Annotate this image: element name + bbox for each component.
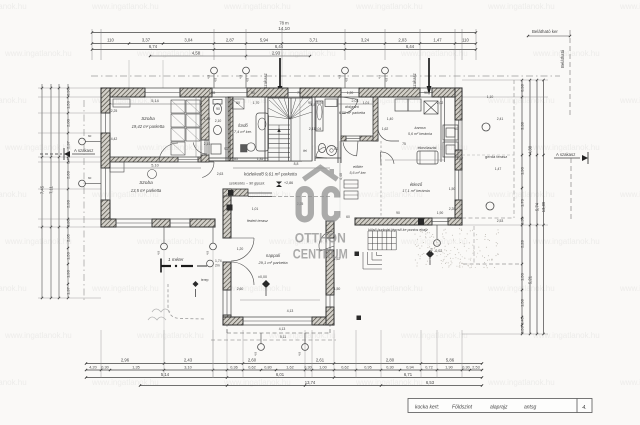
svg-text:www.ingatlanok.hu: www.ingatlanok.hu xyxy=(0,190,27,199)
svg-text:2,00: 2,00 xyxy=(66,118,71,127)
svg-text:90: 90 xyxy=(251,91,255,95)
svg-text:A szakasz: A szakasz xyxy=(556,152,575,157)
svg-text:3,04: 3,04 xyxy=(184,38,193,43)
svg-text:78 m: 78 m xyxy=(279,21,289,26)
svg-text:4,8: 4,8 xyxy=(207,74,211,79)
svg-text:www.ingatlanok.hu: www.ingatlanok.hu xyxy=(0,284,27,293)
svg-text:2,03: 2,03 xyxy=(398,38,407,43)
svg-text:13,5 m² parketta: 13,5 m² parketta xyxy=(131,188,162,193)
svg-text:www.ingatlanok.hu: www.ingatlanok.hu xyxy=(0,378,27,387)
svg-text:4,38: 4,38 xyxy=(528,145,533,154)
svg-text:www.ingatlanok.hu: www.ingatlanok.hu xyxy=(487,190,555,199)
svg-text:4,8: 4,8 xyxy=(298,351,302,356)
svg-text:www.ingatlanok.hu: www.ingatlanok.hu xyxy=(136,237,204,246)
svg-text:1,35: 1,35 xyxy=(257,157,264,161)
svg-text:alaprajz: alaprajz xyxy=(490,405,508,411)
svg-text:1,90: 1,90 xyxy=(437,211,444,215)
svg-text:www.ingatlanok.hu: www.ingatlanok.hu xyxy=(532,143,600,152)
svg-text:dolgozó: dolgozó xyxy=(345,104,360,109)
svg-text:1,40: 1,40 xyxy=(387,117,394,121)
svg-text:2,28: 2,28 xyxy=(449,207,456,211)
svg-text:1,53: 1,53 xyxy=(66,251,71,260)
svg-text:www.ingatlanok.hu: www.ingatlanok.hu xyxy=(0,96,27,105)
svg-text:0,62: 0,62 xyxy=(341,365,348,369)
svg-text:Szoba: Szoba xyxy=(141,116,155,122)
svg-text:0,80: 0,80 xyxy=(66,218,71,227)
svg-text:7,4 m² ker.: 7,4 m² ker. xyxy=(234,130,252,134)
svg-text:0,30: 0,30 xyxy=(304,365,311,369)
svg-text:1,74: 1,74 xyxy=(215,259,222,263)
svg-text:www.ingatlanok.hu: www.ingatlanok.hu xyxy=(487,378,555,387)
svg-text:www.ingatlanok.hu: www.ingatlanok.hu xyxy=(532,49,600,58)
svg-text:6,53: 6,53 xyxy=(426,380,435,385)
svg-text:0,62: 0,62 xyxy=(248,365,255,369)
svg-text:2,25: 2,25 xyxy=(111,109,118,113)
svg-text:7,11: 7,11 xyxy=(49,185,54,194)
svg-text:5,86: 5,86 xyxy=(446,358,455,363)
svg-text:www.ingatlanok.hu: www.ingatlanok.hu xyxy=(532,331,600,340)
svg-text:4.: 4. xyxy=(582,405,587,411)
svg-text:4,8: 4,8 xyxy=(214,77,218,82)
svg-text:www.ingatlanok.hu: www.ingatlanok.hu xyxy=(268,331,336,340)
svg-text:www.ingatlanok.hu: www.ingatlanok.hu xyxy=(487,2,555,11)
svg-text:4,8: 4,8 xyxy=(254,351,258,356)
svg-text:külső burkolat lépcső ke pont: külső burkolat lépcső ke pontos elrajz xyxy=(368,228,428,232)
svg-text:2,04: 2,04 xyxy=(315,127,322,131)
svg-text:85: 85 xyxy=(234,157,238,161)
svg-text:4,8: 4,8 xyxy=(338,74,342,79)
svg-text:5,94: 5,94 xyxy=(317,101,324,105)
svg-text:4,8: 4,8 xyxy=(345,77,349,82)
svg-text:2,60: 2,60 xyxy=(237,287,244,291)
svg-text:4,8: 4,8 xyxy=(378,74,382,79)
svg-text:1,50: 1,50 xyxy=(449,187,456,191)
svg-text:2,96: 2,96 xyxy=(121,358,130,363)
svg-text:90: 90 xyxy=(424,91,428,95)
svg-text:2,43: 2,43 xyxy=(184,358,193,363)
svg-text:4,40: 4,40 xyxy=(339,173,343,180)
svg-text:1,47: 1,47 xyxy=(495,167,502,171)
svg-text:www.ingatlanok.hu: www.ingatlanok.hu xyxy=(4,49,72,58)
svg-text:60: 60 xyxy=(88,176,92,180)
svg-text:www.ingatlanok.hu: www.ingatlanok.hu xyxy=(4,143,72,152)
svg-text:www.ingatlanok.hu: www.ingatlanok.hu xyxy=(355,2,423,11)
svg-text:0,30: 0,30 xyxy=(386,365,393,369)
svg-text:1,62: 1,62 xyxy=(286,365,293,369)
svg-text:2,93: 2,93 xyxy=(66,199,71,208)
svg-text:www.ingatlanok.hu: www.ingatlanok.hu xyxy=(91,284,159,293)
svg-text:OTTHON: OTTHON xyxy=(295,230,346,246)
svg-text:1,93: 1,93 xyxy=(66,269,71,278)
svg-text:www.ingatlanok.hu: www.ingatlanok.hu xyxy=(619,378,640,387)
svg-text:14,10: 14,10 xyxy=(278,26,290,31)
svg-text:nappali: nappali xyxy=(266,253,281,258)
svg-text:75: 75 xyxy=(297,91,301,95)
svg-text:5,6 m² kerámia: 5,6 m² kerámia xyxy=(408,132,432,136)
svg-text:90: 90 xyxy=(224,147,228,151)
svg-text:2,41: 2,41 xyxy=(309,127,316,131)
svg-text:Belátható: Belátható xyxy=(560,49,565,68)
svg-text:2,80: 2,80 xyxy=(386,358,395,363)
svg-text:www.ingatlanok.hu: www.ingatlanok.hu xyxy=(487,96,555,105)
svg-text:1,50: 1,50 xyxy=(334,287,341,291)
svg-text:0,90: 0,90 xyxy=(66,87,71,96)
svg-text:1,53: 1,53 xyxy=(66,100,71,109)
svg-text:110: 110 xyxy=(462,38,469,43)
svg-text:5,21: 5,21 xyxy=(528,275,533,284)
svg-text:2,63: 2,63 xyxy=(66,170,71,179)
svg-text:1,37: 1,37 xyxy=(66,286,71,295)
svg-text:17,1 m² kerámia: 17,1 m² kerámia xyxy=(402,189,429,193)
svg-text:1,01: 1,01 xyxy=(363,101,370,105)
svg-text:A szakasz: A szakasz xyxy=(74,148,93,153)
svg-text:75: 75 xyxy=(402,142,406,146)
svg-text:közlekedő 9,61 m² parketta: közlekedő 9,61 m² parketta xyxy=(244,172,298,177)
svg-text:0,30: 0,30 xyxy=(462,365,469,369)
svg-text:Belátható ker: Belátható ker xyxy=(532,29,558,34)
svg-text:60: 60 xyxy=(236,101,240,105)
svg-text:www.ingatlanok.hu: www.ingatlanok.hu xyxy=(487,284,555,293)
svg-text:90: 90 xyxy=(308,101,312,105)
svg-text:3,24: 3,24 xyxy=(361,38,370,43)
svg-text:6,44: 6,44 xyxy=(275,44,284,49)
svg-text:2,53: 2,53 xyxy=(497,219,504,223)
svg-text:13,89: 13,89 xyxy=(541,201,546,212)
svg-text:13,74: 13,74 xyxy=(305,380,316,385)
svg-text:terep: terep xyxy=(201,278,209,282)
svg-text:4,42: 4,42 xyxy=(111,137,118,141)
svg-text:1,20: 1,20 xyxy=(347,91,354,95)
svg-text:5,11: 5,11 xyxy=(280,335,286,339)
svg-text:fel: fel xyxy=(303,149,307,153)
svg-text:1,35: 1,35 xyxy=(132,365,139,369)
svg-text:kamra: kamra xyxy=(414,125,426,130)
svg-text:0,53: 0,53 xyxy=(520,325,525,334)
svg-text:1,90: 1,90 xyxy=(445,365,452,369)
svg-text:www.ingatlanok.hu: www.ingatlanok.hu xyxy=(223,284,291,293)
svg-text:60: 60 xyxy=(454,127,458,131)
svg-text:1,00: 1,00 xyxy=(319,365,326,369)
svg-text:www.ingatlanok.hu: www.ingatlanok.hu xyxy=(619,2,640,11)
svg-text:antsg: antsg xyxy=(524,405,536,411)
svg-text:29,1 m² parketta: 29,1 m² parketta xyxy=(257,260,288,265)
svg-text:3,37: 3,37 xyxy=(142,38,151,43)
svg-text:3,71: 3,71 xyxy=(309,38,318,43)
svg-text:www.ingatlanok.hu: www.ingatlanok.hu xyxy=(4,237,72,246)
svg-text:6,71: 6,71 xyxy=(404,372,413,377)
svg-text:0,38: 0,38 xyxy=(520,216,525,225)
svg-text:4,8: 4,8 xyxy=(157,250,161,255)
svg-text:www.ingatlanok.hu: www.ingatlanok.hu xyxy=(400,331,468,340)
svg-text:1,70: 1,70 xyxy=(253,101,260,105)
svg-text:2,60: 2,60 xyxy=(248,358,257,363)
svg-text:2m: 2m xyxy=(215,264,220,268)
svg-text:6,50 m² parketta: 6,50 m² parketta xyxy=(339,111,365,115)
svg-text:előtér: előtér xyxy=(353,164,364,169)
svg-text:110: 110 xyxy=(107,38,114,43)
svg-text:www.ingatlanok.hu: www.ingatlanok.hu xyxy=(0,2,27,11)
svg-text:www.ingatlanok.hu: www.ingatlanok.hu xyxy=(619,190,640,199)
svg-text:2,87: 2,87 xyxy=(457,157,464,161)
svg-text:www.ingatlanok.hu: www.ingatlanok.hu xyxy=(619,284,640,293)
svg-text:1,01: 1,01 xyxy=(252,207,259,211)
svg-text:Földszint: Földszint xyxy=(452,405,473,411)
svg-text:0,45: 0,45 xyxy=(520,316,525,325)
svg-text:6,01: 6,01 xyxy=(276,372,285,377)
svg-text:2,05: 2,05 xyxy=(66,233,71,242)
svg-text:www.ingatlanok.hu: www.ingatlanok.hu xyxy=(4,331,72,340)
svg-text:Szoba: Szoba xyxy=(139,180,153,186)
svg-text:90: 90 xyxy=(396,211,400,215)
svg-text:kocka kert:: kocka kert: xyxy=(415,405,440,411)
svg-text:4,8: 4,8 xyxy=(206,250,210,255)
svg-text:2,61: 2,61 xyxy=(316,358,325,363)
svg-text:2,10: 2,10 xyxy=(215,119,222,123)
svg-text:étkező: étkező xyxy=(410,182,423,187)
svg-text:4,8: 4,8 xyxy=(385,77,389,82)
svg-text:90: 90 xyxy=(216,107,220,111)
svg-text:1,58: 1,58 xyxy=(520,298,525,307)
svg-text:6,44: 6,44 xyxy=(406,44,415,49)
svg-text:±0,00: ±0,00 xyxy=(258,275,267,279)
svg-text:0,30: 0,30 xyxy=(101,365,108,369)
svg-text:2,10: 2,10 xyxy=(204,142,211,146)
svg-text:1,50: 1,50 xyxy=(520,272,525,281)
svg-text:www.ingatlanok.hu: www.ingatlanok.hu xyxy=(400,49,468,58)
svg-text:5,94: 5,94 xyxy=(260,38,269,43)
svg-text:1,10: 1,10 xyxy=(487,95,494,99)
svg-text:19,42 m² parketta: 19,42 m² parketta xyxy=(132,124,165,129)
svg-text:60: 60 xyxy=(334,147,338,151)
svg-text:fedett terasz: fedett terasz xyxy=(247,219,268,223)
svg-text:2,02: 2,02 xyxy=(437,101,444,105)
svg-text:www.ingatlanok.hu: www.ingatlanok.hu xyxy=(136,331,204,340)
svg-text:8,8: 8,8 xyxy=(294,162,299,166)
svg-text:fürdő: fürdő xyxy=(238,123,248,128)
svg-text:4,13: 4,13 xyxy=(279,327,286,331)
svg-text:6,74: 6,74 xyxy=(149,44,158,49)
svg-text:2,87: 2,87 xyxy=(226,38,235,43)
svg-text:2,93: 2,93 xyxy=(272,50,281,55)
svg-text:60: 60 xyxy=(88,134,92,138)
svg-text:0,72: 0,72 xyxy=(425,365,432,369)
svg-text:3,38: 3,38 xyxy=(520,121,525,130)
svg-text:1,30: 1,30 xyxy=(204,117,211,121)
svg-text:5,14: 5,14 xyxy=(151,99,158,103)
svg-text:2,53: 2,53 xyxy=(472,365,479,369)
svg-text:0,36: 0,36 xyxy=(230,365,237,369)
svg-text:szélesítés ~ 90 gipszk.: szélesítés ~ 90 gipszk. xyxy=(229,182,265,186)
svg-text:1,35: 1,35 xyxy=(209,91,216,95)
svg-text:www.ingatlanok.hu: www.ingatlanok.hu xyxy=(91,2,159,11)
svg-text:4,20: 4,20 xyxy=(89,365,96,369)
svg-text:0,80: 0,80 xyxy=(264,365,271,369)
svg-text:www.ingatlanok.hu: www.ingatlanok.hu xyxy=(619,96,640,105)
svg-text:+2,86: +2,86 xyxy=(284,181,293,185)
svg-text:2,04: 2,04 xyxy=(352,99,359,103)
svg-text:5,14: 5,14 xyxy=(161,372,170,377)
svg-text:gerda terasz: gerda terasz xyxy=(485,154,507,159)
svg-text:1,73: 1,73 xyxy=(520,198,525,207)
svg-text:www.ingatlanok.hu: www.ingatlanok.hu xyxy=(532,237,600,246)
svg-text:1,20: 1,20 xyxy=(237,247,244,251)
svg-text:étkezőasztal: étkezőasztal xyxy=(418,146,437,150)
svg-text:1 méter: 1 méter xyxy=(168,257,184,262)
svg-text:2,63: 2,63 xyxy=(217,172,224,176)
svg-text:2,37: 2,37 xyxy=(66,140,71,149)
svg-text:www.ingatlanok.hu: www.ingatlanok.hu xyxy=(355,284,423,293)
svg-text:CENTRUM: CENTRUM xyxy=(293,246,348,262)
svg-text:5,10: 5,10 xyxy=(151,164,158,168)
svg-text:0,95: 0,95 xyxy=(364,365,371,369)
svg-text:3,10: 3,10 xyxy=(184,365,191,369)
svg-text:5,74: 5,74 xyxy=(535,202,540,211)
svg-text:0,94: 0,94 xyxy=(406,365,413,369)
svg-text:5,6 m² ker.: 5,6 m² ker. xyxy=(349,171,366,175)
svg-text:1,62: 1,62 xyxy=(382,127,389,131)
svg-text:60: 60 xyxy=(346,215,350,219)
svg-text:7,45: 7,45 xyxy=(40,185,45,194)
svg-text:2,28: 2,28 xyxy=(520,239,525,248)
svg-text:4,8: 4,8 xyxy=(239,74,243,79)
svg-text:4,13: 4,13 xyxy=(287,309,294,313)
svg-text:4,8: 4,8 xyxy=(246,77,250,82)
svg-text:1,47: 1,47 xyxy=(433,38,442,43)
svg-text:1,90: 1,90 xyxy=(520,166,525,175)
svg-text:www.ingatlanok.hu: www.ingatlanok.hu xyxy=(223,2,291,11)
svg-text:0,98: 0,98 xyxy=(520,83,525,92)
svg-text:2,41: 2,41 xyxy=(497,117,504,121)
svg-text:4,58: 4,58 xyxy=(192,50,201,55)
